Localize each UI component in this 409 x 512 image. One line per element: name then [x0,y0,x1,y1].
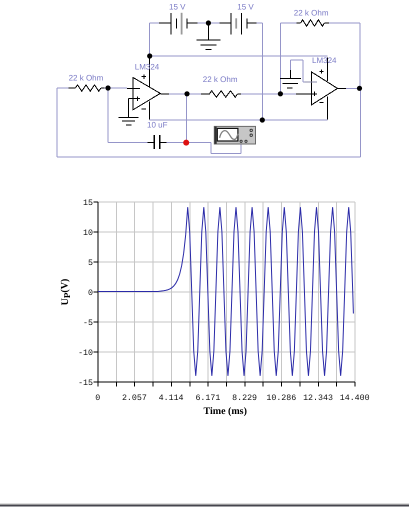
svg-text:15 V: 15 V [169,3,186,12]
svg-text:10 uF: 10 uF [147,120,168,129]
svg-text:LM324: LM324 [312,56,337,65]
svg-text:12.343: 12.343 [303,394,333,403]
svg-text:15: 15 [83,199,93,208]
svg-text:22 k Ohm: 22 k Ohm [294,8,329,17]
svg-text:10.286: 10.286 [266,394,296,403]
svg-text:4.114: 4.114 [159,394,184,403]
svg-text:22 k Ohm: 22 k Ohm [203,75,238,84]
svg-text:-15: -15 [78,379,93,388]
svg-text:LM324: LM324 [135,62,160,71]
svg-text:6.171: 6.171 [195,394,220,403]
svg-text:8.229: 8.229 [232,394,257,403]
svg-text:15 V: 15 V [237,3,254,12]
svg-text:0: 0 [95,394,100,403]
svg-text:22 k Ohm: 22 k Ohm [69,73,104,82]
svg-text:-5: -5 [83,319,93,328]
svg-text:2.057: 2.057 [122,394,147,403]
svg-text:0: 0 [88,289,93,298]
svg-text:UP(V): UP(V) [60,279,72,306]
svg-text:5: 5 [88,259,93,268]
svg-text:14.400: 14.400 [340,394,370,403]
svg-text:Time (ms): Time (ms) [203,406,246,417]
svg-text:-10: -10 [78,349,93,358]
svg-text:10: 10 [83,229,93,238]
